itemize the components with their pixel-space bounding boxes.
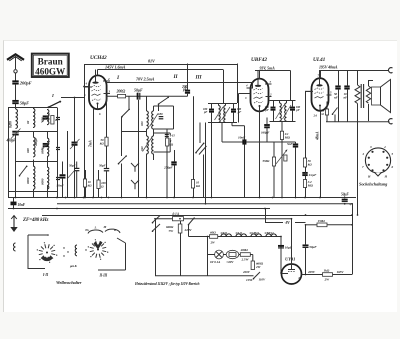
resistor 1k 2W	[323, 268, 333, 281]
resistor 50k	[100, 137, 108, 146]
wire trimmer arrow osc	[143, 139, 152, 152]
resistor 3.2M	[303, 180, 313, 188]
svg-text:205V: 205V	[307, 270, 316, 274]
capacitor 14.5	[165, 134, 175, 138]
resistor 1k	[51, 116, 59, 125]
capacitor 50uF	[134, 87, 143, 99]
svg-text:1159: 1159	[246, 278, 253, 282]
wire	[326, 115, 328, 122]
heater UL41	[236, 231, 247, 236]
variable capacitor osc tuning	[70, 139, 80, 149]
svg-text:0000: 0000	[26, 177, 30, 184]
scan edge left	[3, 40, 5, 312]
svg-text:5nF: 5nF	[287, 142, 293, 146]
oscillator coils	[140, 111, 153, 129]
capacitor 200pF	[12, 81, 31, 86]
heater UCH42	[250, 231, 262, 236]
svg-text:50µF: 50µF	[309, 245, 317, 249]
node junction dots buses	[13, 197, 359, 276]
resistor 660 ohm 7W	[166, 221, 192, 276]
wire heater chain	[189, 236, 282, 238]
node junction	[83, 86, 85, 88]
capacitor 50pF a	[67, 162, 79, 198]
svg-text:145V 1.6mA: 145V 1.6mA	[105, 64, 126, 69]
wire	[205, 123, 207, 204]
switch band upper	[121, 96, 130, 117]
wire UY41 anode feed	[291, 219, 293, 264]
wire	[15, 104, 17, 109]
wire osc tank loop 2	[154, 133, 171, 152]
resistor 150 ohm	[306, 219, 353, 227]
svg-text:III: III	[195, 75, 203, 81]
wire grid stub	[239, 93, 251, 95]
wire	[193, 188, 195, 198]
switch heater tap	[188, 218, 195, 237]
switch osc contact 2	[195, 143, 206, 155]
resistor 100 ohm	[97, 180, 106, 189]
wire anode UCH42	[97, 70, 99, 76]
wire B+ output	[301, 270, 322, 275]
wire 50uF leg	[138, 100, 140, 198]
wire speaker bottom	[326, 121, 390, 123]
svg-text:1kΩ: 1kΩ	[324, 268, 330, 272]
resistor det load	[284, 155, 287, 161]
capacitor 10nF out	[344, 86, 350, 99]
capacitor trimmer 2	[56, 148, 60, 150]
wire	[338, 70, 340, 86]
svg-text:UBF42: UBF42	[265, 231, 275, 235]
svg-text:110V: 110V	[259, 278, 266, 282]
svg-text:480Ω: 480Ω	[240, 248, 249, 252]
svg-text:UL41: UL41	[313, 57, 326, 63]
capacitor 0.1uF	[302, 173, 317, 177]
ground bus	[8, 197, 356, 199]
svg-text:0090: 0090	[40, 178, 44, 185]
svg-text:UCH42: UCH42	[250, 231, 260, 235]
wire	[15, 84, 17, 101]
wire	[305, 225, 307, 245]
switch mains	[152, 216, 160, 276]
svg-text:TA: TA	[85, 228, 89, 232]
svg-text:60Ω: 60Ω	[210, 231, 216, 235]
wire bus 195V	[319, 64, 389, 70]
wire	[305, 175, 307, 179]
resistor 10k osc	[191, 180, 200, 189]
speaker	[372, 80, 391, 113]
switch band contacts	[19, 166, 28, 177]
svg-text:pF: pF	[182, 88, 188, 92]
bus 3	[8, 208, 270, 210]
wire	[252, 82, 254, 88]
svg-text:200pF: 200pF	[19, 81, 32, 86]
wire grid feed	[84, 86, 89, 88]
wire	[153, 129, 155, 136]
svg-text:II-III: II-III	[99, 274, 108, 278]
wire	[15, 134, 17, 197]
wire	[238, 94, 240, 123]
wire	[237, 64, 239, 104]
wire	[146, 129, 148, 136]
svg-text:150Ω: 150Ω	[318, 219, 326, 223]
wire	[295, 142, 297, 144]
switch tone	[332, 108, 338, 122]
tube UL41	[305, 57, 332, 118]
wire	[347, 70, 349, 86]
wire	[106, 96, 108, 137]
wire	[320, 70, 322, 78]
variable capacitor 490pF	[6, 129, 21, 143]
wire anode bus UBF42 93V	[255, 65, 291, 70]
tube UY41 rectifier	[282, 257, 302, 284]
wire	[74, 145, 76, 197]
svg-text:48mA: 48mA	[316, 131, 320, 141]
svg-text:50pF: 50pF	[99, 164, 106, 168]
wire	[305, 167, 307, 173]
capacitor 160pF	[261, 118, 270, 143]
capacitor 50uF smoothing	[303, 245, 318, 249]
wire	[259, 111, 261, 197]
resistor field choke zigzag	[355, 70, 360, 215]
coil wave band middle	[63, 245, 86, 257]
svg-text:020: 020	[26, 148, 30, 153]
svg-text:50nF: 50nF	[57, 184, 65, 188]
lamp dial 6V	[210, 250, 223, 264]
svg-text:160pF: 160pF	[261, 131, 270, 135]
wire	[15, 73, 17, 81]
wire	[67, 131, 69, 198]
resistor 0.1M	[280, 122, 290, 198]
wire bottom mains	[155, 275, 254, 277]
svg-text:0900: 0900	[40, 147, 44, 154]
svg-text:UBF42: UBF42	[251, 57, 267, 63]
potentiometer 5M volume	[263, 142, 288, 198]
svg-text:pF: pF	[203, 110, 207, 114]
svg-text:50µF: 50µF	[341, 193, 349, 197]
svg-text:180: 180	[158, 112, 163, 116]
wire	[250, 254, 253, 256]
svg-text:490pF: 490pF	[34, 137, 38, 147]
node antenna plug	[14, 70, 17, 73]
scanned page area	[3, 40, 397, 312]
capacitor 50pF	[12, 100, 29, 105]
scan edge top	[3, 40, 397, 42]
svg-text:6V 0.1A: 6V 0.1A	[210, 260, 221, 264]
svg-text:pF: pF	[295, 108, 299, 112]
wire	[106, 146, 108, 162]
wire switch riser	[203, 155, 205, 198]
antenna	[7, 54, 24, 61]
coil L4 020	[26, 137, 35, 157]
wire	[333, 270, 353, 275]
wire screen bus 70V	[106, 76, 252, 82]
resistor 50k det	[303, 158, 312, 167]
capacitor 5nF	[287, 142, 298, 147]
coil L3 090	[40, 110, 49, 125]
svg-text:220V: 220V	[242, 270, 251, 274]
svg-text:02: 02	[26, 120, 30, 124]
resistor 480 ohm	[240, 248, 251, 261]
switch contact mid	[118, 155, 127, 164]
svg-text:2.5W: 2.5W	[241, 257, 250, 261]
wire	[221, 123, 223, 143]
wire	[320, 111, 322, 197]
svg-text:≈20V: ≈20V	[227, 260, 235, 264]
resistor 10k	[83, 179, 92, 188]
node fork contact a	[131, 163, 139, 172]
svg-text:220V: 220V	[184, 228, 193, 232]
svg-text:50pF: 50pF	[20, 100, 29, 105]
transformer output core	[361, 84, 363, 108]
svg-text:MΩ: MΩ	[307, 184, 314, 188]
switch band I	[48, 93, 62, 108]
wire bus 145V	[98, 64, 224, 69]
svg-text:020: 020	[140, 121, 144, 126]
wire	[207, 237, 209, 276]
node fork contact b	[131, 180, 139, 189]
svg-text:70V 2.5mA: 70V 2.5mA	[136, 76, 155, 81]
node junction dots ground	[15, 197, 346, 205]
svg-text:50pF: 50pF	[69, 164, 76, 168]
wire -8V line	[265, 221, 306, 225]
wire	[265, 209, 267, 223]
variable capacitor tuning gang b	[34, 137, 50, 150]
wire diode plate link	[232, 123, 245, 198]
wire	[305, 248, 307, 275]
wire	[259, 71, 261, 80]
svg-text:7mA: 7mA	[89, 140, 93, 147]
bus 2	[57, 203, 352, 205]
capacitor trimmer	[56, 118, 60, 120]
IF arrow marker ZF=488kHz	[10, 216, 48, 233]
wire	[121, 117, 123, 157]
oscillator coils 2	[140, 136, 153, 154]
wire osc tank loop	[154, 106, 174, 129]
svg-text:pF: pF	[265, 108, 269, 112]
wire	[85, 187, 87, 198]
resistor 660 ohm 2W	[251, 255, 264, 270]
IF transformer A	[203, 103, 242, 123]
capacitor 200pF top coupling	[181, 85, 190, 93]
svg-text:10nF: 10nF	[18, 203, 26, 207]
heater UY41	[221, 231, 232, 236]
svg-text:10nF: 10nF	[238, 136, 246, 140]
svg-text:M: M	[103, 225, 107, 229]
label box Braun 460GW	[32, 54, 69, 77]
capacitor 10nF ground	[11, 198, 26, 209]
wire	[98, 189, 100, 198]
tube UBF42	[244, 57, 272, 112]
wire	[211, 123, 213, 198]
svg-text:Wellenschalter: Wellenschalter	[56, 280, 82, 285]
wire	[98, 170, 100, 180]
svg-text:MΩ: MΩ	[284, 136, 291, 140]
wire lamp row	[207, 254, 253, 256]
svg-text:Braun: Braun	[38, 57, 63, 67]
svg-text:UL41: UL41	[236, 231, 243, 235]
socket diagram Sockelschaltung	[359, 145, 394, 187]
svg-text:-8V: -8V	[285, 221, 291, 225]
wire	[74, 98, 76, 143]
svg-text:14.5: 14.5	[170, 134, 175, 138]
wire	[199, 123, 201, 144]
coil L7 00900	[40, 167, 48, 189]
svg-text:gez.K: gez.K	[69, 264, 78, 268]
capacitor 50pF b	[99, 162, 109, 176]
wire	[8, 107, 57, 109]
wire trimmer arrow osc 2	[150, 114, 159, 127]
resistor 1k osc	[166, 129, 174, 198]
heater UBF42	[265, 231, 277, 236]
tube UCH42	[84, 55, 111, 116]
node junction	[74, 97, 76, 99]
svg-text:50µF: 50µF	[134, 87, 143, 92]
coil L1 antenna 0280	[8, 109, 17, 129]
wire	[121, 164, 123, 198]
wire	[223, 70, 225, 103]
wire	[290, 71, 292, 101]
svg-text:165V: 165V	[337, 270, 345, 274]
svg-text:I: I	[51, 93, 54, 98]
capacitor 50nF out	[334, 86, 341, 99]
wire	[16, 161, 58, 163]
wire bus 81V	[84, 59, 237, 65]
wire	[187, 93, 189, 96]
svg-text:5MΩ: 5MΩ	[263, 159, 270, 163]
wire	[295, 147, 297, 198]
wire	[352, 203, 354, 274]
wire	[16, 131, 58, 133]
switch voltage tap	[242, 270, 266, 282]
wire cathode line	[89, 109, 94, 198]
wire	[305, 146, 307, 158]
wire antenna lead	[15, 56, 17, 69]
wire	[347, 89, 349, 122]
wire	[62, 178, 64, 198]
coil L5 0900	[40, 138, 48, 156]
svg-text:Heizwiderstand 111Ω/V ; für ty: Heizwiderstand 111Ω/V ; für typ 110V-Ber…	[134, 282, 200, 286]
wire	[305, 91, 307, 146]
capacitor 10uF	[278, 246, 293, 250]
capacitor trimmer 3	[56, 178, 60, 180]
svg-text:2 6: 2 6	[313, 114, 318, 118]
wire osc line	[106, 95, 187, 97]
wire	[62, 162, 64, 176]
fuse 0.1A	[173, 212, 184, 220]
capacitor 50uF reservoir	[341, 193, 352, 207]
bus 4	[42, 215, 352, 217]
capacitor 180pF osc	[158, 112, 163, 119]
wire avc vertical	[84, 64, 86, 198]
wire	[174, 150, 176, 162]
wire	[153, 154, 155, 160]
resistor voice coil zigzag	[366, 80, 373, 121]
ballast urdox	[226, 250, 239, 263]
capacitor 270pF	[163, 162, 177, 169]
svg-text:270pF: 270pF	[163, 166, 173, 170]
wire	[146, 154, 148, 198]
svg-text:200Ω: 200Ω	[116, 89, 126, 94]
wire mains line	[155, 218, 292, 220]
IF transformer B	[265, 100, 301, 122]
switch assembly wellenschalter section II-III	[85, 225, 126, 278]
switch osc contact	[158, 97, 169, 112]
svg-text:ZF=488 kHz: ZF=488 kHz	[22, 218, 48, 223]
wire	[280, 237, 282, 274]
svg-text:93V, 5mA: 93V, 5mA	[260, 65, 276, 70]
svg-text:I-II: I-II	[42, 273, 49, 277]
wire	[85, 170, 87, 179]
resistor 200 ohm	[116, 89, 126, 98]
wire band switch line	[61, 97, 84, 99]
svg-text:195V 40mA: 195V 40mA	[319, 64, 338, 69]
node output terminal bottom	[389, 119, 393, 124]
svg-text:0.1µF: 0.1µF	[309, 173, 317, 177]
wire	[106, 175, 108, 198]
svg-text:L: L	[94, 226, 97, 230]
wire	[193, 96, 195, 179]
wire	[146, 96, 148, 111]
coil L2 02	[26, 109, 35, 128]
wire	[174, 165, 176, 198]
capacitor 10nF det	[222, 136, 296, 145]
variable capacitor tuning gang a	[42, 114, 50, 123]
wire	[338, 89, 340, 122]
wire	[305, 188, 307, 198]
switch assembly wellenschalter section I-II	[14, 234, 58, 277]
wire left vertical	[8, 108, 10, 198]
svg-text:490pF: 490pF	[6, 139, 17, 143]
wire	[8, 191, 57, 193]
svg-text:UCH42: UCH42	[90, 55, 107, 61]
node output terminal top	[389, 68, 393, 73]
wire osc link	[122, 131, 147, 133]
wire coil column verticals	[34, 108, 58, 198]
capacitor 50nF	[57, 175, 66, 187]
resistor 60 ohm	[210, 231, 218, 245]
wire	[326, 102, 328, 110]
svg-text:Sockelschaltung: Sockelschaltung	[359, 182, 388, 187]
svg-text:460GW: 460GW	[35, 66, 66, 76]
resistor 100 ohm UL41	[320, 109, 329, 116]
coil L6 0000	[26, 166, 35, 189]
wire grid UL41	[305, 90, 312, 92]
svg-text:0.1A: 0.1A	[173, 212, 180, 216]
wire	[187, 64, 189, 91]
svg-text:UY41: UY41	[285, 257, 295, 262]
svg-text:UY41: UY41	[221, 231, 228, 235]
